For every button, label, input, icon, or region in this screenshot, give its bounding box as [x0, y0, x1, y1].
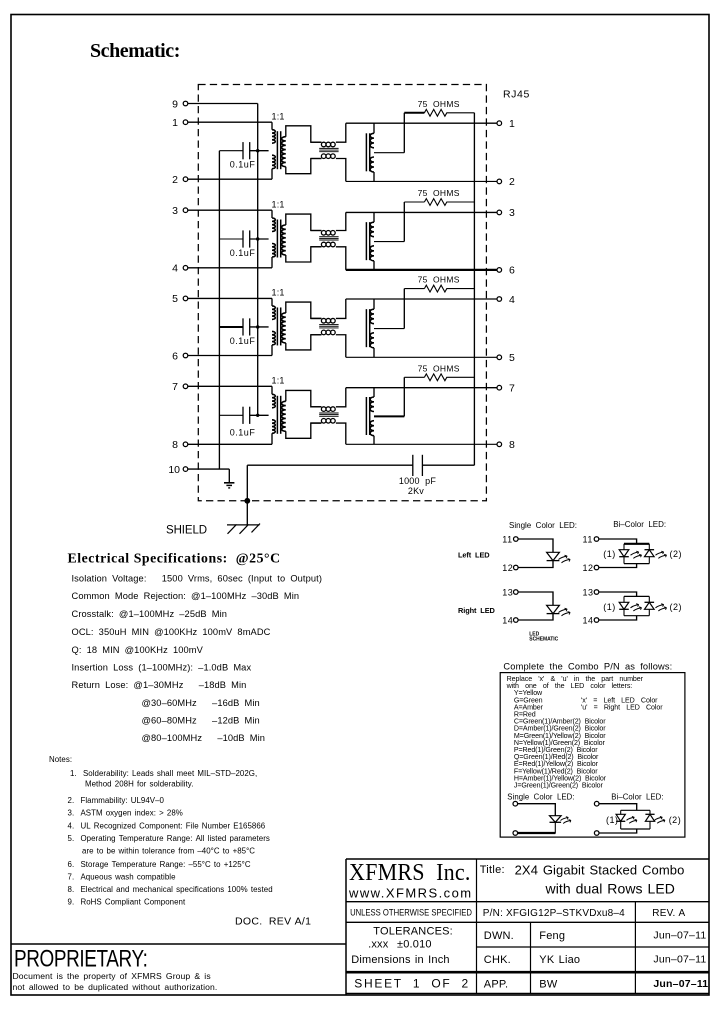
svg-text:4. UL Recognized Component: F: 4. UL Recognized Component: File Number … [68, 822, 266, 831]
svg-text:Jun–07–11: Jun–07–11 [653, 954, 706, 966]
svg-text:0.1uF: 0.1uF [230, 248, 256, 258]
svg-text:P/N: XFGIG12P–STKVDxu8–4: P/N: XFGIG12P–STKVDxu8–4 [483, 908, 625, 919]
svg-text:2X4 Gigabit Stacked Combo: 2X4 Gigabit Stacked Combo [515, 863, 685, 878]
svg-text:10: 10 [168, 464, 180, 476]
svg-text:Bi–Color LED:: Bi–Color LED: [611, 793, 663, 802]
svg-text:BW: BW [539, 978, 558, 990]
svg-text:2: 2 [172, 174, 178, 186]
svg-text:REV. A: REV. A [652, 908, 685, 919]
svg-text:Crosstalk: @1–100MHz –25dB Min: Crosstalk: @1–100MHz –25dB Min [72, 609, 228, 619]
svg-text:Title:: Title: [480, 864, 505, 876]
svg-text:75 OHMS: 75 OHMS [418, 99, 460, 109]
svg-text:1: 1 [172, 117, 178, 129]
svg-text:1:1: 1:1 [272, 288, 285, 298]
svg-text:7: 7 [509, 383, 515, 395]
svg-text:Single Color LED:: Single Color LED: [507, 793, 574, 802]
svg-text:APP.: APP. [484, 978, 508, 990]
svg-text:1. Solderability: Leads shall: 1. Solderability: Leads shall meet MIL–S… [70, 769, 257, 778]
svg-text:8: 8 [509, 439, 515, 451]
svg-text:(2): (2) [670, 549, 683, 559]
svg-text:11: 11 [502, 534, 512, 544]
svg-text:12: 12 [502, 563, 513, 573]
svg-text:Notes:: Notes: [49, 755, 72, 764]
svg-text:(2): (2) [670, 602, 683, 612]
svg-text:(2): (2) [669, 815, 682, 825]
svg-text:OCL: 350uH MIN @100KHz 100mV 8: OCL: 350uH MIN @100KHz 100mV 8mADC [72, 627, 271, 637]
svg-text:14: 14 [583, 615, 594, 625]
svg-text:3: 3 [509, 207, 515, 219]
svg-text:Isolation Voltage: 1500 Vrms: Isolation Voltage: 1500 Vrms, 60sec (Inp… [72, 573, 323, 583]
svg-text:13: 13 [583, 587, 594, 597]
svg-text:RJ45: RJ45 [503, 89, 530, 101]
svg-text:2. Flammability: UL94V–0: 2. Flammability: UL94V–0 [68, 796, 165, 805]
svg-text:Electrical Specifications: @2: Electrical Specifications: @25°C [68, 551, 281, 566]
svg-text:Schematic:: Schematic: [90, 40, 180, 62]
svg-text:.xxx ±0.010: .xxx ±0.010 [368, 939, 432, 951]
svg-text:XFMRS Inc.: XFMRS Inc. [349, 858, 471, 885]
svg-text:1:1: 1:1 [272, 111, 285, 121]
svg-text:www.XFMRS.com: www.XFMRS.com [348, 886, 473, 901]
svg-text:Jun–07–11: Jun–07–11 [653, 978, 708, 990]
svg-text:12: 12 [583, 563, 594, 573]
svg-text:3: 3 [172, 205, 178, 217]
svg-text:4: 4 [172, 263, 178, 275]
svg-text:Common Mode Rejection: @1–100M: Common Mode Rejection: @1–100MHz –30dB M… [72, 591, 300, 601]
svg-text:5: 5 [172, 293, 178, 305]
svg-text:TOLERANCES:: TOLERANCES: [373, 926, 453, 938]
svg-text:not allowed to be duplicated w: not allowed to be duplicated without aut… [13, 982, 218, 992]
svg-text:Bi–Color LED:: Bi–Color LED: [613, 520, 666, 529]
svg-text:6. Storage Temperature Range:: 6. Storage Temperature Range: –55°C to +… [68, 860, 251, 869]
svg-text:9: 9 [172, 98, 178, 110]
svg-text:Single Color LED:: Single Color LED: [509, 521, 577, 530]
svg-text:SHEET 1 OF 2: SHEET 1 OF 2 [354, 976, 470, 990]
svg-text:0.1uF: 0.1uF [230, 336, 256, 346]
svg-text:6: 6 [509, 265, 515, 277]
svg-text:Q: 18 MIN @100KHz 100mV: Q: 18 MIN @100KHz 100mV [72, 645, 204, 655]
svg-text:PROPRIETARY:: PROPRIETARY: [14, 944, 148, 972]
svg-text:7. Aqueous wash compatible: 7. Aqueous wash compatible [68, 873, 177, 882]
svg-text:2Kv: 2Kv [408, 486, 424, 496]
svg-text:6: 6 [172, 350, 178, 362]
svg-text:J=Green(1)/Green(2) Bicolor: J=Green(1)/Green(2) Bicolor [514, 782, 604, 790]
svg-text:8. Electrical and mechanical: 8. Electrical and mechanical specificati… [68, 885, 273, 894]
svg-text:SHIELD: SHIELD [166, 524, 207, 536]
svg-text:YK Liao: YK Liao [539, 954, 580, 966]
svg-text:Method 208H for solderability.: Method 208H for solderability. [85, 780, 193, 789]
svg-text:Right LED: Right LED [458, 606, 496, 615]
svg-text:8: 8 [172, 439, 178, 451]
svg-text:1:1: 1:1 [272, 376, 285, 386]
svg-text:Complete the Combo P/N as foll: Complete the Combo P/N as follows: [503, 661, 672, 671]
svg-text:7: 7 [172, 381, 178, 393]
svg-text:@60–80MHz –12dB Min: @60–80MHz –12dB Min [142, 716, 260, 726]
svg-text:(1): (1) [603, 602, 616, 612]
svg-text:Dimensions in Inch: Dimensions in Inch [351, 954, 450, 966]
svg-text:(1): (1) [603, 549, 616, 559]
svg-text:0.1uF: 0.1uF [230, 428, 256, 438]
svg-text:Document is the property of XF: Document is the property of XFMRS Group … [13, 971, 211, 981]
svg-text:Return Lose: @1–30MHz –18dB: Return Lose: @1–30MHz –18dB Min [72, 680, 247, 690]
svg-text:Feng: Feng [539, 930, 565, 942]
svg-text:13: 13 [502, 587, 513, 597]
svg-text:are to be within tolerance fro: are to be within tolerance from –40°C to… [82, 847, 255, 856]
svg-text:4: 4 [509, 294, 515, 306]
svg-text:'u' = Right LED Color: 'u' = Right LED Color [581, 703, 663, 711]
svg-text:11: 11 [583, 534, 593, 544]
svg-text:Insertion Loss (1–100MHz): –1.: Insertion Loss (1–100MHz): –1.0dB Max [72, 662, 252, 672]
svg-text:75 OHMS: 75 OHMS [418, 275, 460, 285]
svg-text:0.1uF: 0.1uF [230, 160, 256, 170]
svg-text:Left LED: Left LED [458, 551, 490, 560]
svg-text:2: 2 [509, 176, 515, 188]
svg-text:CHK.: CHK. [484, 954, 511, 966]
svg-text:@30–60MHz –16dB Min: @30–60MHz –16dB Min [142, 698, 260, 708]
svg-text:3. ASTM oxygen index: > 28%: 3. ASTM oxygen index: > 28% [68, 809, 183, 818]
svg-text:SCHEMATIC: SCHEMATIC [529, 637, 558, 643]
svg-text:9. RoHS Compliant Component: 9. RoHS Compliant Component [68, 898, 186, 907]
svg-text:Jun–07–11: Jun–07–11 [653, 929, 706, 941]
svg-text:5. Operating Temperature Rang: 5. Operating Temperature Range: All list… [68, 834, 270, 843]
svg-text:75 OHMS: 75 OHMS [418, 363, 460, 373]
svg-text:1000 pF: 1000 pF [399, 476, 436, 486]
svg-text:with dual Rows LED: with dual Rows LED [545, 881, 675, 897]
svg-text:(1): (1) [606, 815, 619, 825]
svg-text:1:1: 1:1 [272, 199, 285, 209]
svg-text:14: 14 [502, 615, 513, 625]
svg-text:5: 5 [509, 352, 515, 364]
svg-text:@80–100MHz –10dB Min: @80–100MHz –10dB Min [142, 733, 266, 743]
svg-text:DOC. REV A/1: DOC. REV A/1 [235, 916, 311, 928]
svg-text:UNLESS OTHERWISE SPECIFIED: UNLESS OTHERWISE SPECIFIED [350, 907, 472, 918]
svg-text:1: 1 [509, 118, 515, 130]
svg-text:DWN.: DWN. [484, 930, 514, 942]
svg-text:75 OHMS: 75 OHMS [418, 188, 460, 198]
